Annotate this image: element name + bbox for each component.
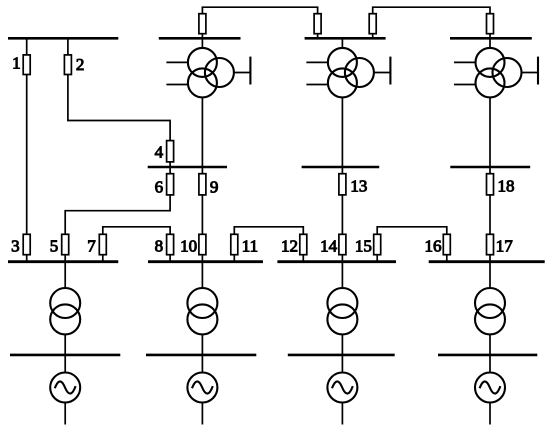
wire breaker 13 to breaker 14 bbox=[341, 195, 343, 234]
breaker rect on link 2 right bbox=[487, 14, 494, 34]
wire top link 1 (bus W2 to bus W3) bbox=[202, 7, 317, 14]
breaker 15 bbox=[374, 234, 381, 254]
wire link1 left rect to busbar W2 bbox=[201, 34, 203, 39]
wire breaker 1 to breaker 3 bbox=[26, 75, 28, 235]
right bar terminal of T3 bbox=[389, 57, 391, 85]
wire busbar W1 to breaker 2 bbox=[67, 38, 69, 55]
busbar W2 (above transformer T2) bbox=[159, 37, 241, 40]
busbar B3 bbox=[277, 260, 396, 263]
svg-text:17: 17 bbox=[496, 236, 514, 255]
wire transformer G4 to generator busbar bbox=[489, 334, 491, 355]
generator G1 sine symbol bbox=[55, 381, 76, 393]
svg-text:2: 2 bbox=[76, 55, 85, 74]
wire breaker 18 to breaker 17 bbox=[489, 195, 491, 234]
generator G4 circle bbox=[475, 373, 505, 403]
wire link2 right rect to busbar W4 bbox=[489, 34, 491, 39]
wire breaker 4 to busbar W5 bbox=[169, 162, 171, 167]
wire bridge between breaker 11 and breaker 12 bbox=[234, 227, 303, 235]
wire stub below generator G1 bbox=[64, 403, 66, 425]
generator busbar of column G3 bbox=[288, 354, 395, 357]
left stub upper of T2 bbox=[166, 61, 188, 63]
busbar B4 bbox=[429, 260, 545, 263]
svg-text:9: 9 bbox=[210, 177, 219, 196]
wire generator busbar to generator G4 bbox=[489, 355, 491, 373]
wire busbar to transformer T4 bbox=[489, 38, 491, 48]
svg-text:14: 14 bbox=[320, 236, 338, 255]
transformer T3 primary winding circle bbox=[328, 48, 357, 77]
busbar W5 (middle, column 2) bbox=[148, 166, 227, 168]
transformer T2 primary winding circle bbox=[188, 48, 217, 77]
breaker 8 bbox=[167, 234, 174, 254]
breaker 16 bbox=[443, 234, 450, 254]
generator G2 sine symbol bbox=[192, 381, 213, 393]
wire breaker 9 to breaker 10 bbox=[201, 195, 203, 234]
right stub of T2 bbox=[234, 72, 251, 74]
breaker 12 bbox=[300, 234, 307, 254]
wire bridge between breaker 7 and breaker 8 bbox=[103, 227, 170, 235]
busbar W1 (top left) bbox=[8, 37, 118, 40]
wire breaker 17 to busbar B4 bbox=[489, 255, 491, 262]
wire busbar down to unit transformer G4 bbox=[489, 262, 491, 288]
transformer T4 secondary winding circle bbox=[476, 68, 505, 97]
transformer T3 secondary winding circle bbox=[328, 68, 357, 97]
svg-text:11: 11 bbox=[242, 236, 258, 255]
wire busbar W6 to breaker 13 bbox=[341, 167, 343, 174]
wire busbar W7 to breaker 18 bbox=[489, 167, 491, 174]
wire busbar to transformer T2 bbox=[201, 38, 203, 48]
wire transformer G2 to generator busbar bbox=[201, 334, 203, 355]
svg-text:4: 4 bbox=[155, 142, 164, 161]
wire busbar down to unit transformer G3 bbox=[341, 262, 343, 288]
unit transformer G2 primary circle bbox=[187, 288, 217, 318]
busbar W3 (above transformer T3) bbox=[305, 37, 386, 40]
wire stub below generator G4 bbox=[489, 403, 491, 425]
wire busbar W5 to breaker 6 bbox=[169, 167, 171, 174]
svg-text:3: 3 bbox=[11, 236, 20, 255]
wire breaker 2 down, bend right to breaker 4 bbox=[68, 75, 170, 141]
left stub lower of T2 bbox=[166, 84, 188, 86]
generator G3 circle bbox=[327, 373, 357, 403]
left stub lower of T4 bbox=[454, 84, 476, 86]
wire link1 right rect to busbar W3 bbox=[317, 34, 319, 39]
breaker 10 bbox=[199, 234, 206, 254]
breaker 11 bbox=[231, 234, 238, 254]
busbar B2 bbox=[148, 260, 263, 263]
svg-text:15: 15 bbox=[355, 236, 372, 255]
unit transformer G3 secondary circle bbox=[327, 304, 357, 334]
unit transformer G3 primary circle bbox=[327, 288, 357, 318]
wire busbar to transformer T3 bbox=[341, 38, 343, 48]
wire stub below generator G2 bbox=[201, 403, 203, 425]
svg-text:10: 10 bbox=[180, 236, 197, 255]
breaker 7 bbox=[99, 234, 106, 254]
generator busbar of column G4 bbox=[438, 354, 537, 357]
breaker 2 bbox=[64, 55, 71, 75]
breaker 17 bbox=[487, 234, 494, 254]
wire busbar W1 to breaker 1 bbox=[26, 38, 28, 55]
wire transformer G3 to generator busbar bbox=[341, 334, 343, 355]
right stub of T3 bbox=[374, 72, 391, 74]
svg-text:1: 1 bbox=[12, 53, 21, 72]
wire breaker 3 to busbar B1 bbox=[26, 255, 28, 262]
wire breaker 15 to busbar B3 bbox=[376, 255, 378, 262]
svg-text:5: 5 bbox=[50, 236, 59, 255]
generator busbar of column G1 bbox=[10, 354, 120, 357]
generator G2 circle bbox=[187, 373, 217, 403]
svg-text:18: 18 bbox=[498, 177, 515, 196]
busbar W6 (middle, column 3) bbox=[302, 166, 380, 168]
svg-text:12: 12 bbox=[281, 236, 298, 255]
wire bridge between breaker 15 and breaker 16 bbox=[377, 227, 447, 235]
wire breaker 11 to busbar B2 bbox=[233, 255, 235, 262]
breaker 5 bbox=[62, 234, 69, 254]
right bar terminal of T4 bbox=[537, 57, 539, 85]
breaker 6 bbox=[167, 174, 174, 195]
wire busbar W5 to breaker 9 bbox=[201, 167, 203, 174]
breaker 13 bbox=[339, 174, 346, 195]
wire breaker 7 to busbar B1 bbox=[102, 255, 104, 262]
left stub lower of T3 bbox=[306, 84, 328, 86]
wire breaker 12 to busbar B3 bbox=[302, 255, 304, 262]
unit transformer G4 primary circle bbox=[475, 288, 505, 318]
wire stub below generator G3 bbox=[341, 403, 343, 425]
breaker 18 bbox=[487, 174, 494, 195]
wire breaker 16 to busbar B4 bbox=[446, 255, 448, 262]
breaker 4 bbox=[167, 141, 174, 162]
generator G4 sine symbol bbox=[480, 381, 501, 393]
breaker rect on link 1 right bbox=[314, 14, 321, 34]
wire breaker 6 down, bend left to breaker 5 bbox=[65, 195, 170, 234]
generator G1 circle bbox=[50, 373, 80, 403]
wire generator busbar to generator G1 bbox=[64, 355, 66, 373]
wire breaker 10 to busbar B2 bbox=[201, 255, 203, 262]
unit transformer G1 primary circle bbox=[50, 288, 80, 318]
busbar W4 (above transformer T4) bbox=[450, 37, 532, 40]
wire breaker 5 to busbar B1 bbox=[64, 255, 66, 262]
right stub of T4 bbox=[522, 72, 539, 74]
left stub upper of T3 bbox=[306, 61, 328, 63]
transformer T4 primary winding circle bbox=[476, 48, 505, 77]
breaker 1 bbox=[23, 55, 30, 75]
wire top link 2 (bus W3 to bus W4) bbox=[373, 7, 490, 14]
wire breaker 14 to busbar B3 bbox=[341, 255, 343, 262]
svg-text:7: 7 bbox=[87, 236, 96, 255]
svg-text:6: 6 bbox=[155, 177, 164, 196]
unit transformer G1 secondary circle bbox=[50, 304, 80, 334]
wire generator busbar to generator G3 bbox=[341, 355, 343, 373]
svg-text:13: 13 bbox=[350, 177, 367, 196]
wire breaker 8 to busbar B2 bbox=[169, 255, 171, 262]
transformer T2 secondary winding circle bbox=[188, 68, 217, 97]
svg-text:8: 8 bbox=[155, 236, 164, 255]
breaker rect on link 2 left bbox=[369, 14, 376, 34]
generator busbar of column G2 bbox=[146, 354, 256, 357]
transformer T4 tertiary winding circle bbox=[493, 58, 522, 87]
breaker 14 bbox=[339, 234, 346, 254]
svg-text:16: 16 bbox=[425, 236, 442, 255]
wire transformer T2 down to middle busbar bbox=[201, 97, 203, 167]
busbar W7 (middle, column 4) bbox=[450, 166, 530, 168]
breaker 9 bbox=[199, 174, 206, 195]
unit transformer G2 secondary circle bbox=[187, 304, 217, 334]
breaker 3 bbox=[23, 234, 30, 254]
breaker rect on link 1 left bbox=[199, 14, 206, 34]
wire transformer T4 down to middle busbar bbox=[489, 97, 491, 167]
transformer T3 tertiary winding circle bbox=[345, 58, 374, 87]
wire link2 left rect to busbar W3 bbox=[372, 34, 374, 39]
transformer T2 tertiary winding circle bbox=[205, 58, 234, 87]
wire generator busbar to generator G2 bbox=[201, 355, 203, 373]
wire busbar down to unit transformer G1 bbox=[64, 262, 66, 288]
busbar B1 bbox=[8, 260, 118, 263]
right bar terminal of T2 bbox=[249, 57, 251, 85]
wire transformer G1 to generator busbar bbox=[64, 334, 66, 355]
left stub upper of T4 bbox=[454, 61, 476, 63]
generator G3 sine symbol bbox=[332, 381, 353, 393]
wire transformer T3 down to middle busbar bbox=[341, 97, 343, 167]
unit transformer G4 secondary circle bbox=[475, 304, 505, 334]
wire busbar down to unit transformer G2 bbox=[201, 262, 203, 288]
